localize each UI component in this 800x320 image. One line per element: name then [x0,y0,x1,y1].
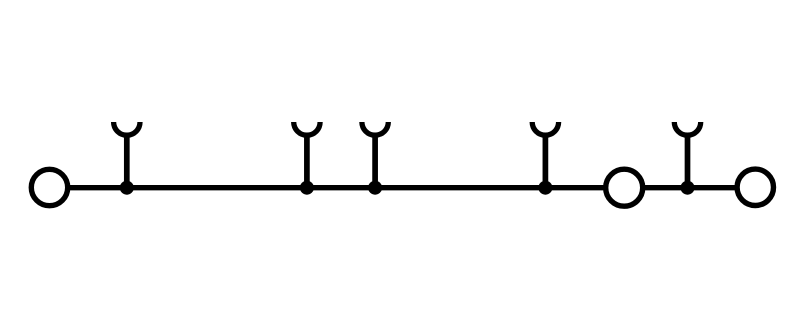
test socket P1 [114,122,140,188]
terminal T3 (right connection point) [737,169,773,205]
wire (main conductor, left segment T1 to T2) [68,185,607,190]
terminal T1 (left connection point) [31,169,67,205]
wire (main conductor, right segment T2 to T3) [643,185,738,190]
node J1 (junction dot) [120,181,134,195]
node J3 (junction dot) [368,181,382,195]
terminal T2 (middle connection point) [606,169,643,206]
node J4 (junction dot) [538,181,552,195]
node J5 (junction dot) [681,181,695,195]
node J2 (junction dot) [300,181,314,195]
test socket P3 [362,122,388,188]
test socket P5 [674,122,700,188]
test socket P2 [294,122,320,188]
test socket P4 [532,122,558,188]
